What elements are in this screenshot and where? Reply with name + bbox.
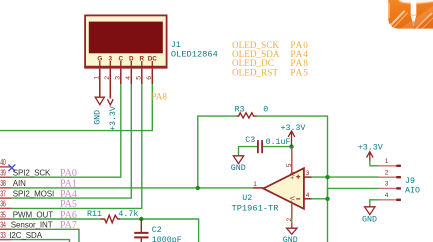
OLED pin ticks inside body [100, 61, 153, 66]
svg-text:5: 5 [286, 163, 293, 167]
wire row 33 I2C_SDA corner down [12, 240, 70, 242]
icon pen [411, 0, 417, 26]
svg-text:D: D [129, 55, 134, 62]
ground symbol under OLED pin 1 [95, 97, 104, 104]
svg-text:0: 0 [263, 106, 268, 115]
wire AIN junction up to R3 left [198, 116, 237, 188]
svg-text:1000pF: 1000pF [152, 236, 182, 242]
svg-text:PWM_OUT: PWM_OUT [13, 210, 53, 219]
svg-text:C2: C2 [152, 226, 162, 235]
wire row 35 PWM_OUT to R11 [12, 218, 101, 220]
wire J9 pin4 to GND stem [370, 200, 379, 207]
op-amp pin 5 stub V+ [291, 147, 293, 175]
svg-text:PA7: PA7 [60, 220, 77, 231]
svg-text:GND: GND [362, 216, 377, 225]
svg-text:OLED_RST: OLED_RST [232, 67, 278, 77]
svg-text:4: 4 [306, 192, 310, 199]
J9 pad pin 3 [396, 187, 401, 189]
OLED pin stubs [100, 69, 153, 99]
svg-text:GND: GND [283, 236, 298, 242]
no-connect X pin 40 [8, 165, 15, 172]
svg-text:U2: U2 [242, 194, 252, 203]
junction at C3 +3.3V node [289, 144, 293, 148]
wire op-amp pin4 to rail [312, 198, 328, 200]
capacitor C2 [140, 219, 142, 232]
wire R11 right through C2 node, corner down off-screen [121, 219, 199, 242]
svg-text:Sensor_INT: Sensor_INT [11, 221, 53, 230]
svg-text:SPI2_MOSI: SPI2_MOSI [13, 189, 54, 198]
svg-text:4.7k: 4.7k [118, 209, 138, 219]
icon top white band [398, 0, 433, 3]
svg-text:5: 5 [136, 76, 143, 80]
op-amp U2 [263, 168, 304, 209]
wire J9 pin1 stub left part [370, 160, 379, 166]
svg-text:AIN: AIN [13, 179, 26, 188]
J9 pad pin 1 [396, 165, 401, 167]
svg-text:R: R [140, 55, 145, 62]
wire C3 left to GND stem [239, 147, 258, 156]
svg-text:3: 3 [306, 170, 310, 177]
junction rail / op-amp pin3 [325, 175, 329, 179]
svg-text:PA5: PA5 [60, 199, 77, 210]
svg-text:1: 1 [385, 158, 389, 165]
svg-text:38: 38 [0, 180, 6, 188]
op-amp + input mark [296, 175, 300, 179]
svg-text:39: 39 [0, 170, 6, 178]
connector J1 OLED12864 body [85, 15, 167, 67]
op-amp pin 2 stub V- [291, 203, 293, 219]
resistor R3 [237, 113, 257, 118]
OLED screen area [89, 22, 163, 54]
svg-text:C3: C3 [245, 136, 255, 145]
svg-text:GND: GND [231, 164, 246, 173]
svg-text:PA8: PA8 [152, 92, 168, 102]
+3.3V power arrow at C3 node [288, 131, 295, 147]
ground symbol op-amp pin 2 [287, 228, 297, 234]
svg-text:2: 2 [286, 218, 293, 222]
J9 pad pin 2 [396, 176, 401, 178]
app icon background [388, 0, 433, 29]
op-amp pin 4 stub [304, 198, 312, 200]
svg-text:6: 6 [146, 76, 153, 80]
ground symbol for C3 [233, 156, 243, 164]
wire row 34 Sensor_INT corner down [12, 229, 80, 242]
svg-text:0.1uF: 0.1uF [266, 138, 291, 147]
+3.3V power arrow at J9 pin1 [367, 152, 374, 161]
svg-text:4: 4 [385, 192, 389, 199]
MCU pin stubs rows 40-33 [0, 167, 12, 240]
svg-text:I2C_SDA: I2C_SDA [9, 231, 42, 240]
svg-text:+3.3V: +3.3V [281, 124, 306, 133]
svg-text:40: 40 [0, 159, 6, 167]
J9 pad pin 4 [396, 199, 401, 201]
connector J9 pin stubs [379, 166, 398, 200]
junction at R11/C2 node [139, 217, 143, 221]
svg-text:GND: GND [93, 110, 102, 125]
resistor R11 [101, 215, 121, 223]
svg-text:V-: V- [288, 196, 295, 202]
app icon top right [388, 0, 433, 33]
svg-text:+3.3V: +3.3V [109, 106, 118, 131]
svg-text:3: 3 [385, 181, 389, 188]
junction on AIN at R3 branch [196, 186, 200, 190]
capacitor C3 [258, 140, 262, 153]
svg-text:3: 3 [109, 55, 113, 62]
svg-text:AIO: AIO [405, 187, 420, 196]
svg-text:SPI2_SCK: SPI2_SCK [13, 169, 51, 178]
svg-text:1: 1 [253, 181, 257, 188]
svg-text:J9: J9 [405, 177, 415, 186]
svg-text:4: 4 [125, 76, 132, 80]
op-amp - input mark [296, 198, 300, 200]
wire op-amp pin3 to J9 pin2 [312, 176, 379, 178]
svg-text:3: 3 [115, 76, 122, 80]
svg-text:34: 34 [0, 222, 6, 230]
wire J9 pin3 jog to rail [328, 188, 379, 198]
wire R3 right to vertical rail down off-screen [257, 116, 328, 242]
ground symbol J9 pin4 [365, 207, 375, 215]
wire OLED pin D to row 37 SPI2_MOSI [12, 84, 132, 199]
svg-text:R3: R3 [235, 105, 245, 114]
svg-text:2: 2 [104, 76, 111, 80]
svg-text:+3.3V: +3.3V [358, 143, 383, 152]
+3.3V down arrow under OLED pin 2 [107, 99, 113, 105]
svg-text:1: 1 [94, 76, 101, 80]
svg-text:PA5: PA5 [290, 67, 309, 77]
wire row 38 AIN to op-amp output [12, 187, 253, 189]
op-amp pin 1 stub [253, 187, 264, 189]
junction rail / op-amp pin4 [325, 197, 329, 201]
wire OLED pin R to row 36 [12, 84, 142, 209]
wire OLED pin C to row 39 SPI2_SCK [12, 84, 121, 178]
svg-text:OLED12864: OLED12864 [171, 50, 218, 60]
svg-text:37: 37 [0, 190, 6, 198]
svg-text:36: 36 [0, 201, 6, 209]
svg-text:DC: DC [148, 55, 158, 62]
svg-text:PA0: PA0 [60, 168, 77, 179]
op-amp pin 3 stub [304, 176, 312, 178]
wire C3 right to +3.3V node [263, 146, 292, 148]
svg-text:2: 2 [385, 169, 389, 176]
wire PA8 net from OLED pin DC down and left to edge [0, 84, 152, 131]
svg-text:C: C [119, 55, 124, 62]
icon gloss streaks [400, 8, 433, 33]
svg-text:R11: R11 [87, 210, 102, 219]
svg-text:33: 33 [0, 232, 6, 240]
svg-text:TP1961-TR: TP1961-TR [232, 204, 279, 214]
svg-text:G: G [97, 55, 102, 62]
svg-text:V+: V+ [288, 172, 295, 180]
svg-text:35: 35 [0, 211, 6, 219]
